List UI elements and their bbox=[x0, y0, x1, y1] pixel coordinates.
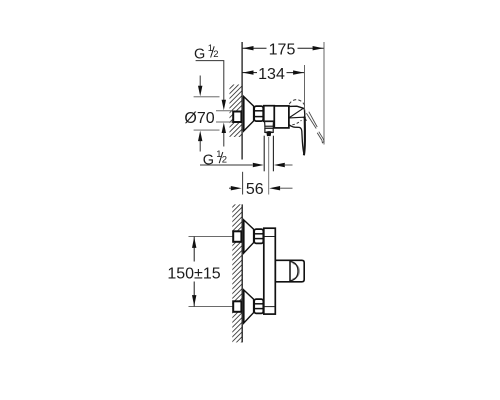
supply stub / ext line lower bbox=[189, 306, 234, 308]
svg-text:175: 175 bbox=[269, 41, 296, 58]
svg-text:134: 134 bbox=[258, 66, 285, 83]
leader G1/2 top bbox=[196, 61, 224, 147]
shower outlet pipe bbox=[263, 136, 265, 172]
svg-text:2: 2 bbox=[222, 155, 227, 166]
svg-text:G: G bbox=[203, 152, 214, 168]
handle dome (solid, lowered) bbox=[289, 106, 305, 118]
wall extension segment for 56 dim bbox=[242, 172, 244, 195]
wall face line (bottom view) bbox=[241, 204, 243, 342]
knob / handle (bottom view) bbox=[275, 260, 304, 282]
svg-text:150±15: 150±15 bbox=[167, 265, 220, 282]
dim 134 bbox=[242, 72, 304, 74]
label G 1/2 (lower) bbox=[203, 149, 227, 168]
svg-text:Ø70: Ø70 bbox=[184, 110, 214, 127]
escutcheon upper (bottom view) bbox=[244, 220, 254, 253]
handle assembly silhouette (white fill) bbox=[289, 106, 305, 155]
outlet taper block bbox=[265, 122, 274, 127]
leader G1/2 lower bbox=[200, 164, 253, 166]
supply square upper bbox=[233, 231, 241, 242]
lever outer edge (solid, lowered) bbox=[304, 117, 305, 156]
supply pipe lines behind wall bbox=[216, 110, 233, 112]
wall hatch (top view) bbox=[216, 48, 256, 194]
dim 56 bbox=[268, 137, 270, 195]
escutcheon lower (bottom view) bbox=[244, 290, 254, 323]
supply square lower bbox=[233, 301, 241, 312]
hex nut lower (bottom view) bbox=[254, 299, 263, 313]
hex nut (top view) bbox=[254, 106, 263, 121]
dashed lower arc of raised handle bbox=[292, 120, 301, 125]
outlet nipple bbox=[267, 133, 271, 136]
dim Ø70 bbox=[194, 96, 220, 98]
dim 150±15 bbox=[193, 237, 195, 307]
supply stub / ext line upper bbox=[189, 236, 234, 238]
lever inner edge bbox=[289, 125, 304, 154]
ext line 134 right bbox=[304, 65, 306, 110]
supply square fitting bbox=[233, 112, 241, 123]
mixer body rear section bbox=[274, 106, 289, 128]
label G 1/2 (top) bbox=[194, 43, 218, 62]
outlet collar bbox=[265, 128, 273, 132]
svg-text:2: 2 bbox=[213, 49, 218, 60]
ext line 175 right bbox=[323, 42, 325, 145]
svg-text:56: 56 bbox=[246, 181, 264, 198]
dome internal edges bbox=[290, 108, 304, 117]
wall hatch (bottom view) bbox=[222, 178, 252, 386]
hex nut upper (bottom view) bbox=[254, 229, 263, 243]
body plate (bottom view) bbox=[264, 228, 276, 314]
mixer body front section bbox=[264, 106, 275, 122]
raised lever phantom lines with break bbox=[306, 112, 324, 143]
wall face line (top view, also extension line for 175/134/56) bbox=[241, 42, 243, 160]
dim 175 bbox=[242, 47, 324, 49]
escutcheon (top view) bbox=[244, 97, 254, 132]
mixer body end line bbox=[288, 106, 290, 125]
dome (dashed, raised position) bbox=[289, 100, 305, 107]
